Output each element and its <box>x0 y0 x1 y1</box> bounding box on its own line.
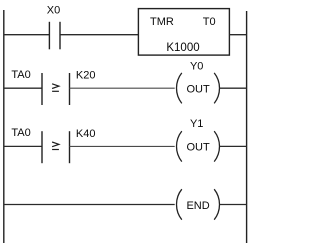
wire rung1 to timer <box>60 34 138 36</box>
coil Y0 right paren <box>214 73 219 104</box>
wire rung4 left <box>4 204 175 206</box>
right power rail <box>246 11 248 243</box>
compare contact bar2 rung2 <box>69 73 71 105</box>
svg-text:TMR: TMR <box>150 16 174 28</box>
compare contact bar1 rung3 <box>41 131 43 163</box>
svg-text:K40: K40 <box>76 128 96 140</box>
wire rung3 right <box>220 145 247 147</box>
compare contact bar1 rung2 <box>41 73 43 105</box>
svg-text:OUT: OUT <box>186 142 210 154</box>
timer block TMR T0 <box>138 9 229 56</box>
coil Y1 left paren <box>177 131 182 162</box>
compare operator >= rung2 <box>52 84 59 92</box>
wire rung3 left <box>4 145 42 147</box>
coil END left paren <box>177 189 182 220</box>
coil END right paren <box>214 189 219 220</box>
svg-text:X0: X0 <box>47 4 60 16</box>
compare contact bar2 rung3 <box>69 131 71 163</box>
svg-text:K1000: K1000 <box>166 42 199 54</box>
wire rung1 right <box>229 34 246 36</box>
wire rung4 right <box>220 204 247 206</box>
svg-text:Y0: Y0 <box>190 60 203 72</box>
contact X0 left bar <box>48 22 50 50</box>
svg-text:END: END <box>186 200 209 212</box>
svg-text:OUT: OUT <box>186 83 210 95</box>
svg-text:TA0: TA0 <box>11 69 30 81</box>
wire rung2 right <box>220 87 247 89</box>
compare operator >= rung3 <box>52 142 59 150</box>
wire rung3 to coil <box>70 145 175 147</box>
wire rung2 to coil <box>70 87 175 89</box>
svg-text:K20: K20 <box>76 70 96 82</box>
left power rail <box>3 10 5 243</box>
coil Y0 left paren <box>177 73 182 104</box>
svg-text:T0: T0 <box>203 16 216 28</box>
contact X0 right bar <box>59 22 61 50</box>
svg-text:Y1: Y1 <box>190 118 203 130</box>
coil Y1 right paren <box>214 131 219 162</box>
wire rung1 left <box>4 34 50 36</box>
svg-text:TA0: TA0 <box>11 127 30 139</box>
wire rung2 left <box>4 87 42 89</box>
